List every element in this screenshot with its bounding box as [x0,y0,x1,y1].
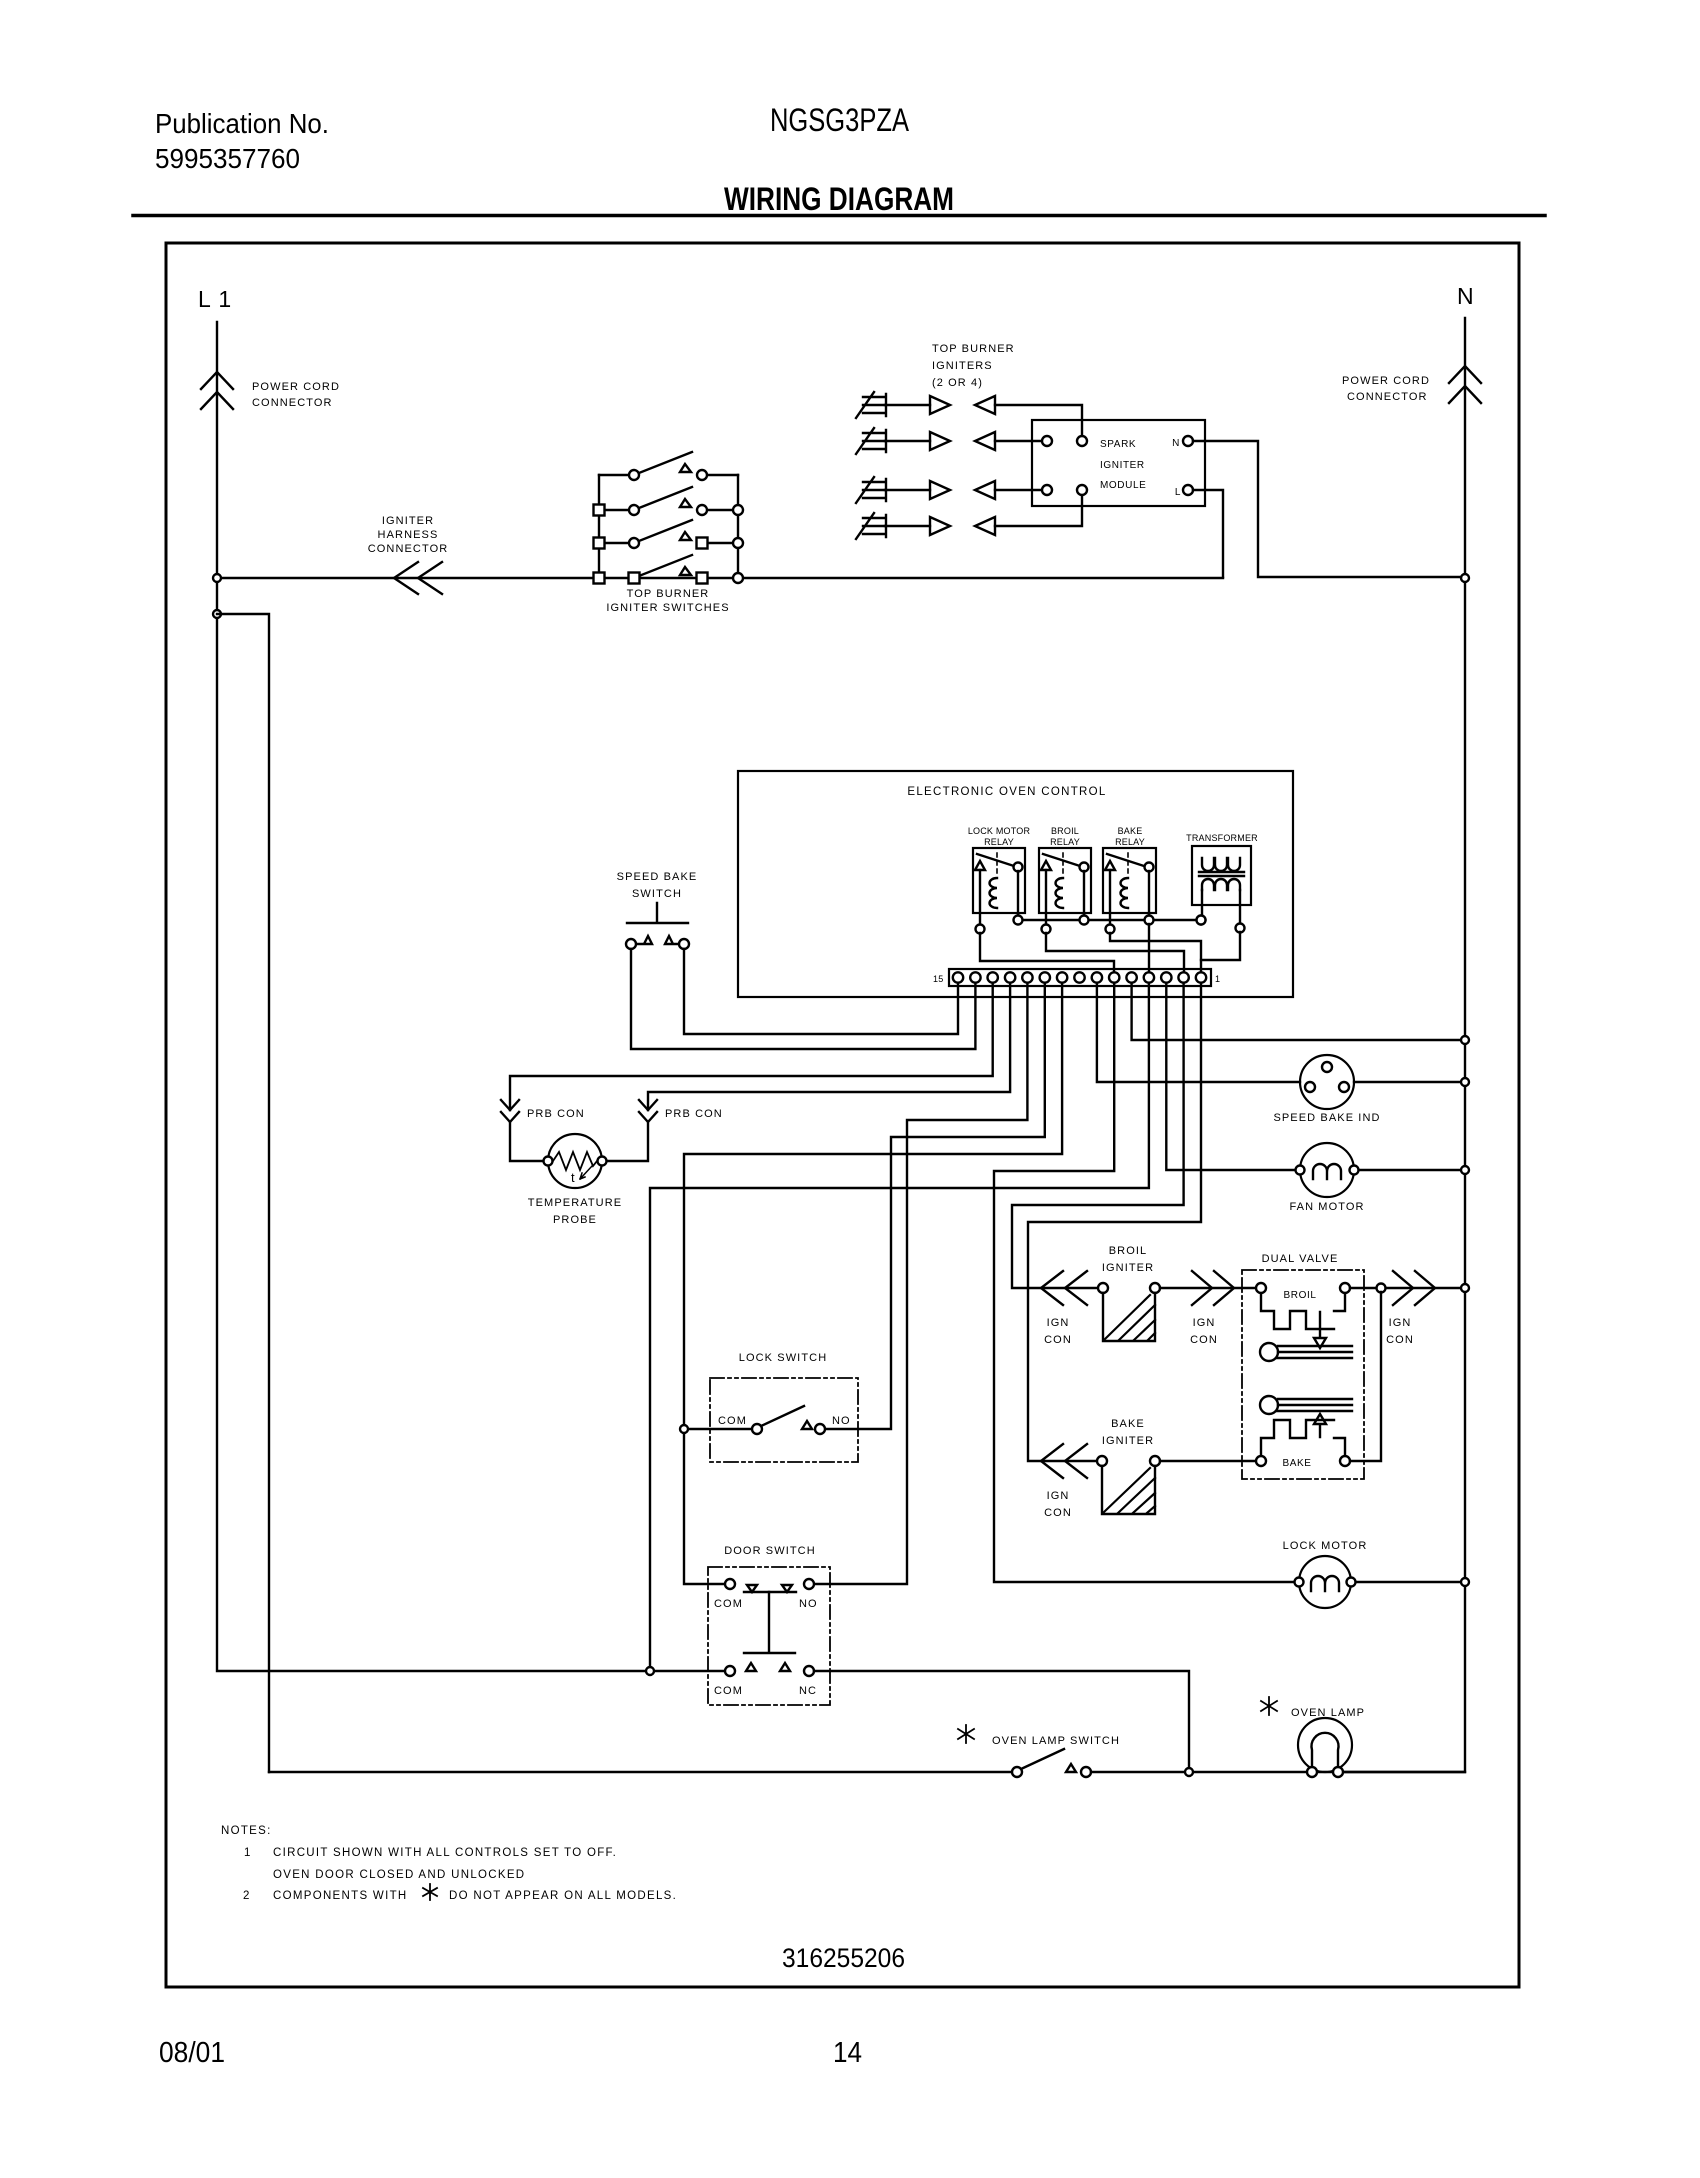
top burner igniter row 4 [856,495,1082,539]
svg-text:RELAY: RELAY [1115,837,1145,847]
svg-text:DUAL VALVE: DUAL VALVE [1262,1253,1339,1265]
asterisk in note 2 [423,1884,437,1900]
transformer T1 [1186,833,1258,933]
broil valve solenoid [1256,1283,1352,1361]
wire bus to terminal 4 [1148,924,1150,977]
svg-text:IGN: IGN [1389,1317,1412,1329]
wire broil valve to N bus [1350,1287,1461,1289]
svg-text:N: N [1457,283,1475,309]
junction speed bake indicator [1461,1078,1469,1086]
svg-text:IGNITER: IGNITER [1100,460,1145,471]
igniter connector valve right [1393,1271,1435,1305]
top burner igniter switches [594,452,744,584]
svg-text:CON: CON [1190,1334,1218,1346]
svg-text:OVEN DOOR CLOSED AND UNLOCKED: OVEN DOOR CLOSED AND UNLOCKED [273,1869,525,1881]
junction broil at N bus [1461,1284,1469,1292]
spark igniter module U1 [1032,420,1205,506]
junction N top [1461,574,1469,582]
wire oven lamp line left [269,1771,1012,1773]
junction broil return [1377,1284,1386,1293]
svg-text:1: 1 [244,1847,252,1859]
svg-text:POWER CORD: POWER CORD [1342,375,1430,387]
junction lock switch COM [680,1425,688,1433]
speed bake indicator [1300,1055,1354,1109]
wire T7 to speed bake indicator [1097,983,1300,1082]
svg-text:L 1: L 1 [198,286,232,312]
svg-text:IGNITERS: IGNITERS [932,360,993,372]
bake igniter E2 [1097,1456,1160,1514]
wire lock relay coil to terminal 6 [980,933,1114,977]
svg-text:2: 2 [243,1890,251,1902]
switch row 4 [639,555,692,576]
top burner igniter row 2 [856,428,1042,454]
svg-text:COM: COM [714,1598,743,1610]
title underline [133,214,1545,218]
power cord connector (L1) [201,372,233,409]
wire T1 to bake igniter [1028,983,1201,1461]
terminal strip on EOC [949,969,1211,986]
svg-text:Publication No.: Publication No. [155,108,329,139]
svg-text:CON: CON [1386,1334,1414,1346]
wire bake relay coil to terminal 1 [1110,933,1201,977]
wire T3 to fan motor [1166,983,1298,1170]
wire T9 to lock switch COM and door switch COM [684,983,1062,1584]
svg-text:t: t [571,1170,575,1185]
svg-text:BAKE: BAKE [1118,826,1143,836]
terminal pins 15..1 [953,972,1206,982]
svg-text:NOTES:: NOTES: [221,1825,272,1837]
spark module inner pins [1042,436,1052,446]
wire T11 to door switch NO [814,983,1027,1584]
junction L1 branch [213,610,221,618]
relay K3 bake relay [1103,826,1156,934]
svg-text:BROIL: BROIL [1283,1290,1316,1301]
left bus [598,475,600,578]
wire branch to oven lamp line [217,614,269,1772]
svg-text:TOP BURNER: TOP BURNER [627,588,710,600]
svg-text:BAKE: BAKE [1282,1458,1311,1469]
svg-text:PRB CON: PRB CON [527,1108,585,1120]
temperature probe RT1 [544,1134,607,1188]
oven lamp asterisk [1261,1697,1277,1715]
svg-text:SPARK: SPARK [1100,439,1136,450]
border frame [166,243,1519,1987]
svg-text:IGN: IGN [1047,1317,1070,1329]
wire broil igniter to dual valve [1160,1287,1256,1289]
junction lock motor [1461,1578,1469,1586]
svg-text:BROIL: BROIL [1109,1245,1148,1257]
svg-text:CON: CON [1044,1334,1072,1346]
svg-text:(2 OR 4): (2 OR 4) [932,377,983,389]
svg-text:BAKE: BAKE [1111,1418,1145,1430]
wire module L to main run [1193,490,1223,577]
wire speed bake indicator to N bus [1354,1081,1461,1083]
fan motor M1 [1296,1143,1359,1197]
svg-text:CIRCUIT SHOWN WITH ALL CONTROL: CIRCUIT SHOWN WITH ALL CONTROLS SET TO O… [273,1847,617,1859]
wire T4 to door switch COM junction [650,983,1149,1667]
wire lock motor to N bus [1356,1581,1461,1583]
svg-text:IGN: IGN [1047,1490,1070,1502]
wire L1 vertical bus [217,322,725,1671]
wire broil relay coil to terminal 2 [1046,933,1184,977]
svg-text:NGSG3PZA: NGSG3PZA [770,102,910,138]
oven lamp DS1 [1298,1718,1352,1777]
svg-text:TOP BURNER: TOP BURNER [932,343,1015,355]
svg-text:COM: COM [714,1685,743,1697]
svg-text:BROIL: BROIL [1051,826,1079,836]
wire fan motor to N bus [1359,1169,1461,1171]
relay K1 lock motor relay [968,826,1031,934]
switch row 2 [599,487,738,510]
svg-text:TEMPERATURE: TEMPERATURE [528,1197,622,1209]
svg-text:SPEED BAKE: SPEED BAKE [617,871,698,883]
wire bake igniter to dual valve [1160,1460,1256,1462]
svg-text:15: 15 [933,974,943,984]
svg-text:FAN MOTOR: FAN MOTOR [1289,1201,1364,1213]
wire door NC to oven lamp line [814,1671,1189,1772]
relay K2 broil relay [1039,826,1091,934]
svg-text:DOOR SWITCH: DOOR SWITCH [724,1545,816,1557]
junction door COM line [646,1667,654,1675]
wire T2 to broil igniter [1012,983,1184,1288]
wire bake valve return [1350,1292,1381,1461]
junction L1 top [213,574,221,582]
svg-text:LOCK SWITCH: LOCK SWITCH [739,1352,828,1364]
junction right bus on main line [733,573,743,583]
wire oven lamp line right [1091,1771,1465,1773]
top burner igniter row 3 [856,477,1042,503]
power cord connector (N) [1449,366,1481,403]
wire T12 to probe connector 2 [607,983,1010,1161]
probe connector 2 [639,1100,657,1122]
svg-text:LOCK MOTOR: LOCK MOTOR [968,826,1031,836]
wire T6 to lock motor [994,983,1297,1582]
svg-text:IGNITER: IGNITER [382,515,434,527]
wire N vertical bus [1344,318,1465,1772]
wire module N to N bus [1193,441,1461,577]
relay contact bus [1018,919,1201,921]
svg-text:LOCK MOTOR: LOCK MOTOR [1283,1540,1368,1552]
svg-text:POWER CORD: POWER CORD [252,381,340,393]
svg-text:OVEN LAMP SWITCH: OVEN LAMP SWITCH [992,1735,1120,1747]
svg-text:HARNESS: HARNESS [378,529,439,541]
switch row 3 [599,520,738,543]
igniter connector bake left [1041,1444,1087,1478]
svg-text:1: 1 [1215,974,1220,984]
svg-text:ELECTRONIC OVEN CONTROL: ELECTRONIC OVEN CONTROL [907,786,1106,798]
wire T14 to speed bake switch left pin [631,949,975,1049]
svg-text:COMPONENTS WITH: COMPONENTS WITH [273,1890,408,1902]
right bus [737,475,739,578]
wire T5 to N bus [1132,983,1461,1040]
igniter connector broil left [1041,1271,1087,1305]
svg-text:N: N [1172,438,1180,449]
svg-text:PRB CON: PRB CON [665,1108,723,1120]
svg-text:TRANSFORMER: TRANSFORMER [1186,833,1258,843]
junction fan motor [1461,1166,1469,1174]
igniter harness connector [394,562,442,594]
svg-text:SPEED BAKE IND: SPEED BAKE IND [1273,1112,1380,1124]
wire transformer to terminal 1 [1201,932,1240,960]
oven lamp switch asterisk [958,1725,974,1743]
junction T5 at N bus [1461,1036,1469,1044]
bake valve solenoid [1256,1396,1352,1469]
svg-text:CONNECTOR: CONNECTOR [368,543,449,555]
svg-text:5995357760: 5995357760 [155,143,300,174]
svg-text:MODULE: MODULE [1100,480,1146,491]
svg-text:NC: NC [799,1685,817,1697]
wire T10 to lock switch NO [825,983,1045,1429]
svg-text:CON: CON [1044,1507,1072,1519]
junction left bus on main line [594,573,605,584]
dual valve enclosure [1242,1270,1364,1479]
wire T13 to probe connector 1 [510,983,993,1161]
igniter connector broil right [1192,1271,1234,1305]
wire main L1 horizontal run [217,577,1223,579]
svg-text:IGNITER: IGNITER [1102,1262,1154,1274]
svg-text:L: L [1175,487,1181,498]
svg-text:NO: NO [799,1598,818,1610]
svg-text:316255206: 316255206 [782,1943,905,1973]
svg-text:WIRING DIAGRAM: WIRING DIAGRAM [724,181,954,217]
svg-text:RELAY: RELAY [984,837,1014,847]
oven lamp switch S1 [1012,1749,1091,1777]
probe connector 1 [501,1100,519,1122]
bus ring contacts [1014,916,1023,925]
junction oven lamp line [1185,1768,1193,1776]
svg-text:CONNECTOR: CONNECTOR [1347,391,1428,403]
svg-text:CONNECTOR: CONNECTOR [252,397,333,409]
svg-text:08/01: 08/01 [159,2037,225,2069]
svg-text:IGNITER SWITCHES: IGNITER SWITCHES [606,602,729,614]
svg-text:14: 14 [833,2037,862,2069]
svg-text:IGNITER: IGNITER [1102,1435,1154,1447]
svg-text:SWITCH: SWITCH [632,888,682,900]
svg-text:PROBE: PROBE [553,1214,597,1226]
switch row 1 [599,452,738,475]
svg-text:NO: NO [832,1415,851,1427]
svg-text:DO NOT APPEAR ON ALL MODELS.: DO NOT APPEAR ON ALL MODELS. [449,1890,677,1902]
broil igniter E1 [1098,1283,1160,1341]
svg-text:IGN: IGN [1193,1317,1216,1329]
svg-text:COM: COM [718,1415,747,1427]
electronic oven control box [738,771,1293,997]
svg-text:RELAY: RELAY [1050,837,1080,847]
wire T15 to speed bake switch right pin [684,949,958,1034]
top burner igniter row 1 [856,392,1082,436]
